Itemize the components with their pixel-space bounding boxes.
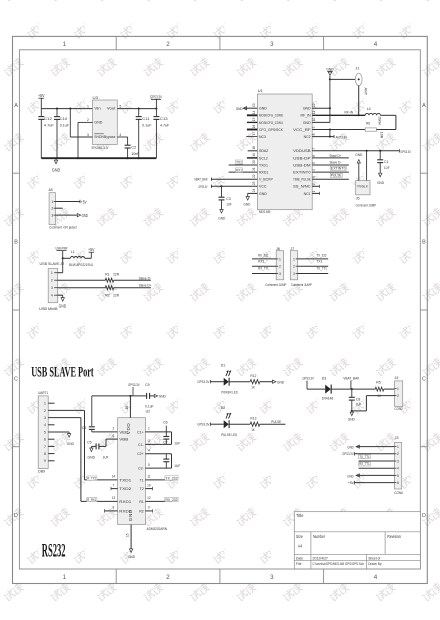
svg-text:+5V: +5V bbox=[348, 480, 354, 485]
svg-text:Slave D+: Slave D+ bbox=[139, 284, 153, 288]
svg-text:Number: Number bbox=[313, 534, 325, 539]
svg-text:C1-: C1- bbox=[138, 443, 144, 447]
svg-text:Bypass: Bypass bbox=[104, 135, 116, 139]
svg-text:2: 2 bbox=[293, 265, 295, 269]
svg-text:GPS3.3V: GPS3.3V bbox=[199, 184, 208, 189]
wire R13 to PULSE net bbox=[260, 423, 286, 425]
svg-text:GND: GND bbox=[347, 473, 354, 478]
svg-text:RX1: RX1 bbox=[258, 260, 264, 264]
svg-text:GPS3.3V: GPS3.3V bbox=[302, 375, 314, 380]
svg-text:C2: C2 bbox=[131, 144, 137, 149]
svg-text:GPS3.3V: GPS3.3V bbox=[197, 422, 209, 427]
svg-text:TX1: TX1 bbox=[236, 160, 242, 164]
svg-text:R6: R6 bbox=[366, 121, 371, 126]
U1 pin3 TIME_PULSE wire bbox=[312, 178, 349, 180]
J5 pin2 to GPS3.3V wire bbox=[366, 151, 368, 181]
svg-text:2: 2 bbox=[279, 265, 281, 269]
svg-text:Size: Size bbox=[296, 534, 303, 539]
svg-text:TXD1: TXD1 bbox=[259, 163, 268, 167]
svg-text:7: 7 bbox=[44, 445, 46, 449]
svg-text:1K: 1K bbox=[251, 427, 255, 432]
svg-text:C6: C6 bbox=[163, 421, 168, 425]
wire D3 to VBAT_BAK junction bbox=[332, 388, 376, 390]
U2 T2 stub bbox=[145, 488, 152, 490]
svg-text:5: 5 bbox=[148, 463, 150, 467]
capacitor C6 between C1+ C1- bbox=[145, 431, 171, 433]
J3 pin1 GND bbox=[357, 446, 395, 448]
svg-text:VBAT_BAK: VBAT_BAK bbox=[343, 375, 359, 380]
svg-text:A: A bbox=[14, 103, 18, 109]
U1 pin1 NC1 stub bbox=[312, 192, 319, 194]
svg-text:10: 10 bbox=[147, 483, 151, 487]
svg-text:2: 2 bbox=[312, 183, 316, 185]
svg-text:NC2: NC2 bbox=[304, 135, 311, 139]
U1 pin2 SS_N stub bbox=[312, 185, 319, 187]
capacitor C3 bbox=[220, 185, 222, 187]
svg-text:15: 15 bbox=[126, 533, 130, 537]
svg-text:PS/Se.m: PS/Se.m bbox=[358, 184, 369, 188]
svg-text:8: 8 bbox=[44, 452, 46, 456]
svg-text:16: 16 bbox=[125, 406, 129, 410]
U1 pin22 V_BCKP wire / net VBAT_BAK bbox=[211, 178, 257, 180]
svg-text:R13: R13 bbox=[250, 416, 257, 421]
wire J8 pin3 to GND bbox=[56, 214, 78, 216]
U2 R2 stub bbox=[145, 510, 152, 512]
GPS module U1 NEO-6M bbox=[257, 94, 312, 210]
svg-text:L1: L1 bbox=[71, 249, 75, 254]
svg-text:Slave D+: Slave D+ bbox=[329, 154, 341, 158]
svg-text:C9: C9 bbox=[145, 382, 150, 387]
svg-text:A4: A4 bbox=[298, 544, 303, 549]
svg-text:R12: R12 bbox=[250, 373, 257, 378]
wire R5 to J4 bbox=[384, 388, 395, 390]
svg-text:GPS3.3V: GPS3.3V bbox=[400, 149, 411, 154]
ground symbol C3 bbox=[221, 203, 223, 209]
svg-text:GND: GND bbox=[347, 444, 354, 449]
svg-text:17: 17 bbox=[252, 132, 256, 136]
svg-text:T1: T1 bbox=[140, 478, 144, 482]
svg-text:2: 2 bbox=[44, 409, 46, 413]
svg-text:5: 5 bbox=[119, 104, 121, 108]
svg-text:0.1uF: 0.1uF bbox=[60, 122, 70, 127]
wire U3 Vout bbox=[117, 108, 156, 110]
svg-text:39nH: 39nH bbox=[377, 117, 381, 126]
svg-text:1: 1 bbox=[279, 257, 281, 261]
wire J2 pin1 to USB-PWR bbox=[58, 272, 63, 274]
svg-text:0.1uF: 0.1uF bbox=[142, 122, 152, 127]
svg-text:5: 5 bbox=[312, 162, 316, 164]
svg-text:VDDUSB: VDDUSB bbox=[293, 149, 311, 153]
svg-text:2: 2 bbox=[397, 452, 399, 456]
resistor R1 bbox=[105, 278, 113, 282]
svg-text:TX_232: TX_232 bbox=[316, 253, 326, 257]
svg-text:Comment +5V jacket: Comment +5V jacket bbox=[49, 226, 77, 230]
ground symbol C5 bbox=[90, 446, 92, 448]
svg-text:R5: R5 bbox=[376, 380, 381, 385]
U2 pin15 to GND bbox=[130, 525, 132, 549]
svg-text:TX_232: TX_232 bbox=[166, 476, 178, 480]
svg-text:11: 11 bbox=[147, 475, 151, 479]
svg-text:6: 6 bbox=[113, 434, 115, 438]
wire J8 pin1 to +5V bbox=[56, 201, 81, 203]
U1 pin20 TXD1 wire bbox=[229, 164, 258, 166]
svg-text:4: 4 bbox=[312, 169, 316, 171]
svg-text:1: 1 bbox=[148, 427, 150, 431]
svg-text:22R: 22R bbox=[113, 292, 119, 297]
svg-text:A: A bbox=[422, 103, 426, 109]
svg-text:1UF: 1UF bbox=[174, 442, 181, 446]
svg-text:GND: GND bbox=[377, 180, 384, 185]
U1 pin23 VCC wire / net GPS3.3V bbox=[211, 185, 257, 187]
svg-text:RS232: RS232 bbox=[42, 541, 66, 561]
svg-text:5: 5 bbox=[44, 430, 46, 434]
capacitor C1 bbox=[379, 151, 381, 160]
svg-text:15: 15 bbox=[252, 117, 256, 121]
wire GPS3.3V down to C4/V+ bbox=[91, 396, 93, 426]
svg-text:USB SLAVE: USB SLAVE bbox=[40, 261, 60, 266]
svg-text:U2: U2 bbox=[146, 408, 151, 413]
svg-text:RX_232: RX_232 bbox=[166, 498, 178, 502]
svg-text:VCC: VCC bbox=[259, 185, 267, 189]
capacitor C7 between C2+ C2- bbox=[145, 453, 171, 455]
svg-text:RXD2: RXD2 bbox=[119, 509, 131, 513]
svg-text:Title: Title bbox=[296, 513, 304, 518]
capacitor C4 bbox=[89, 426, 95, 428]
U1 pin21 RXD1 wire bbox=[229, 171, 258, 173]
svg-text:1: 1 bbox=[293, 257, 295, 261]
svg-text:TXD1: TXD1 bbox=[119, 478, 131, 482]
svg-text:GND: GND bbox=[82, 213, 88, 218]
svg-text:GPS3.3V: GPS3.3V bbox=[197, 379, 209, 384]
U1 pin24 GND bbox=[248, 192, 258, 194]
svg-text:13: 13 bbox=[112, 496, 116, 500]
wire R2 to Slave D+ bbox=[114, 287, 151, 289]
U1 pin17 stub bbox=[246, 136, 257, 138]
svg-text:EXTINT0: EXTINT0 bbox=[293, 171, 311, 175]
J5 pin1 to GND symbol bbox=[358, 163, 360, 180]
svg-text:1: 1 bbox=[51, 200, 53, 204]
U1 pin4 EXTINT0 wire bbox=[312, 171, 349, 173]
svg-text:D1: D1 bbox=[221, 362, 226, 367]
svg-text:4: 4 bbox=[397, 467, 399, 471]
svg-text:C3: C3 bbox=[226, 196, 231, 201]
svg-text:1UF: 1UF bbox=[384, 165, 390, 170]
svg-text:1UF: 1UF bbox=[103, 455, 110, 459]
svg-text:2: 2 bbox=[113, 427, 115, 431]
J3 pin3 TX_TTL bbox=[359, 460, 395, 462]
svg-text:PULSE: PULSE bbox=[271, 420, 281, 424]
J3 pin4 RX_TTL bbox=[359, 467, 395, 469]
power net +5V at L1 bbox=[90, 252, 92, 258]
svg-text:8: 8 bbox=[113, 506, 115, 510]
svg-text:4: 4 bbox=[51, 294, 53, 298]
svg-text:VBAT_BAK: VBAT_BAK bbox=[194, 177, 208, 182]
svg-text:9: 9 bbox=[44, 459, 46, 463]
svg-text:PULSE LED: PULSE LED bbox=[221, 433, 237, 437]
svg-text:C4: C4 bbox=[82, 426, 87, 430]
svg-text:Revision: Revision bbox=[387, 534, 401, 539]
svg-text:9: 9 bbox=[148, 506, 150, 510]
J6 wires RX bbox=[252, 258, 276, 260]
svg-text:4: 4 bbox=[119, 133, 121, 137]
svg-text:C1+: C1+ bbox=[137, 430, 144, 434]
svg-text:22R: 22R bbox=[113, 271, 119, 276]
svg-text:VEE: VEE bbox=[119, 430, 129, 434]
svg-text:6: 6 bbox=[44, 438, 46, 442]
svg-text:4: 4 bbox=[148, 449, 150, 453]
svg-text:D: D bbox=[14, 513, 18, 519]
svg-text:RX_232: RX_232 bbox=[258, 253, 268, 257]
svg-text:VCC_RF: VCC_RF bbox=[293, 128, 311, 132]
wire R1 to Slave D- bbox=[114, 279, 151, 281]
svg-text:24: 24 bbox=[252, 188, 256, 192]
svg-text:VBB: VBB bbox=[119, 438, 129, 442]
svg-text:2: 2 bbox=[397, 394, 399, 398]
svg-text:SHDN: SHDN bbox=[94, 135, 104, 139]
svg-text:1: 1 bbox=[63, 41, 67, 48]
svg-text:1: 1 bbox=[63, 574, 67, 581]
resistor R12 bbox=[250, 380, 260, 384]
svg-text:3: 3 bbox=[293, 272, 295, 276]
svg-text:14: 14 bbox=[112, 475, 116, 479]
svg-text:4.7uF: 4.7uF bbox=[160, 122, 170, 127]
wire GND drop to pin10 bbox=[329, 76, 331, 122]
wire J1 to RF_IN bbox=[358, 86, 360, 116]
ground symbol C8 bbox=[351, 410, 353, 412]
svg-text:C:\work\a\GPS\NEO-6M GPS\GPS.S: C:\work\a\GPS\NEO-6M GPS\GPS.Sch bbox=[313, 562, 365, 566]
svg-text:ADM3202ARN: ADM3202ARN bbox=[147, 527, 168, 531]
svg-text:C7: C7 bbox=[163, 440, 168, 444]
svg-text:CON6: CON6 bbox=[394, 491, 403, 495]
svg-text:1: 1 bbox=[51, 271, 53, 275]
svg-text:14: 14 bbox=[252, 110, 256, 114]
svg-text:1: 1 bbox=[312, 190, 316, 192]
svg-text:R1: R1 bbox=[139, 500, 144, 504]
svg-text:8: 8 bbox=[312, 133, 316, 135]
svg-text:23: 23 bbox=[252, 181, 256, 185]
wire J2 pin3 to R2 bbox=[58, 287, 106, 289]
svg-text:RXD1: RXD1 bbox=[119, 500, 131, 504]
svg-text:U3: U3 bbox=[93, 95, 99, 100]
svg-text:3: 3 bbox=[44, 416, 46, 420]
jumper J5 bbox=[356, 181, 370, 195]
svg-text:D: D bbox=[422, 513, 426, 519]
svg-text:2: 2 bbox=[166, 574, 170, 581]
svg-text:1UF: 1UF bbox=[174, 464, 181, 468]
svg-text:4: 4 bbox=[44, 423, 46, 427]
svg-text:Vout: Vout bbox=[107, 107, 117, 111]
resistor R5 bbox=[375, 387, 384, 391]
svg-text:7: 7 bbox=[312, 148, 316, 150]
capacitor C12 bbox=[40, 109, 42, 117]
U1 pin5 USB-DM wire bbox=[312, 164, 349, 166]
svg-text:POWER LED: POWER LED bbox=[221, 390, 238, 394]
svg-text:12: 12 bbox=[312, 103, 316, 107]
U2 TXD2 pin7 stub bbox=[111, 488, 118, 490]
capacitor C2 bypass bbox=[117, 136, 127, 138]
svg-text:RX_TTL: RX_TTL bbox=[258, 266, 269, 270]
svg-text:C: C bbox=[422, 376, 426, 382]
wire R12 to GND bbox=[260, 381, 273, 383]
svg-text:Vin: Vin bbox=[94, 107, 101, 111]
svg-text:Comment JUMP: Comment JUMP bbox=[265, 283, 286, 287]
svg-text:3: 3 bbox=[270, 41, 274, 48]
svg-text:2: 2 bbox=[166, 41, 170, 48]
svg-text:GND: GND bbox=[218, 216, 225, 221]
svg-text:3: 3 bbox=[397, 459, 399, 463]
svg-text:V_BCKP: V_BCKP bbox=[259, 178, 273, 182]
svg-text:3: 3 bbox=[87, 133, 89, 137]
svg-text:RX1: RX1 bbox=[236, 168, 242, 172]
svg-text:GND: GND bbox=[52, 168, 61, 173]
svg-text:UART1: UART1 bbox=[38, 390, 49, 395]
svg-text:C12: C12 bbox=[44, 116, 53, 121]
ground symbol GND rail bbox=[55, 158, 57, 160]
svg-text:ANT3.3V: ANT3.3V bbox=[336, 135, 348, 139]
resistor R6 box style bbox=[312, 129, 365, 131]
wire UART1 pin2 to U2 TXD1 bbox=[48, 409, 84, 411]
svg-text:GND: GND bbox=[128, 554, 135, 559]
wire J4 pin2 return to GND bbox=[366, 395, 394, 397]
svg-text:+5V: +5V bbox=[81, 199, 87, 204]
svg-text:USB-DP: USB-DP bbox=[293, 156, 311, 160]
svg-text:USB-PWR: USB-PWR bbox=[56, 246, 68, 251]
wire U3 GND pin to ground rail bbox=[78, 121, 93, 123]
svg-text:SS_N/NC: SS_N/NC bbox=[293, 185, 311, 189]
svg-text:1K: 1K bbox=[251, 385, 255, 390]
U1 pin15 stub bbox=[247, 121, 258, 123]
svg-text:TXD2: TXD2 bbox=[119, 487, 131, 491]
svg-text:R2: R2 bbox=[105, 292, 110, 297]
svg-text:GND: GND bbox=[303, 121, 311, 125]
U1 pin16 stub bbox=[247, 129, 258, 131]
svg-text:TX_TTL: TX_TTL bbox=[316, 266, 327, 270]
wire L4 to bias junction bbox=[380, 114, 396, 116]
svg-text:18: 18 bbox=[252, 146, 256, 150]
svg-text:1: 1 bbox=[44, 402, 46, 406]
J3 pin5 GND bbox=[357, 474, 395, 476]
svg-text:CFG_GPS/SCK: CFG_GPS/SCK bbox=[259, 128, 284, 132]
svg-text:1UF: 1UF bbox=[356, 402, 362, 407]
svg-text:RF-IN: RF-IN bbox=[345, 110, 354, 114]
capacitor C13 bbox=[155, 108, 157, 110]
svg-text:4: 4 bbox=[374, 574, 378, 581]
U1 pin8 NC2 tie to VCC_RF / net ANT3.3V bbox=[329, 130, 331, 137]
ground rail bbox=[41, 157, 156, 159]
wire +5V rail to regulator bbox=[41, 108, 92, 110]
svg-text:C: C bbox=[14, 376, 18, 382]
svg-text:USB SLAVE Port: USB SLAVE Port bbox=[31, 364, 94, 380]
svg-text:RF_IN: RF_IN bbox=[300, 114, 311, 118]
capacitor C8 bbox=[351, 389, 353, 397]
svg-text:PULSE: PULSE bbox=[331, 174, 342, 178]
svg-text:3: 3 bbox=[312, 176, 316, 178]
svg-text:16: 16 bbox=[252, 125, 256, 129]
svg-text:2: 2 bbox=[51, 207, 53, 211]
svg-text:9: 9 bbox=[312, 126, 316, 128]
svg-text:GND: GND bbox=[259, 192, 267, 196]
wire C4 to U2 VEE pin2 bbox=[92, 431, 118, 433]
svg-text:USB-DM: USB-DM bbox=[293, 163, 311, 167]
svg-text:Sheet of: Sheet of bbox=[368, 555, 381, 560]
svg-text:+5V: +5V bbox=[88, 247, 95, 252]
svg-text:1: 1 bbox=[87, 104, 89, 108]
svg-text:4.7uF: 4.7uF bbox=[44, 122, 54, 127]
svg-text:1N4148: 1N4148 bbox=[322, 396, 334, 400]
svg-text:DB9: DB9 bbox=[38, 469, 45, 473]
U1 pin14 stub bbox=[247, 114, 258, 116]
resistor R2 bbox=[105, 286, 113, 290]
svg-text:C11: C11 bbox=[142, 116, 150, 121]
ground symbol C1 bbox=[379, 172, 381, 174]
transceiver U2 ADM3202 bbox=[118, 418, 146, 525]
U2 T1 wire to TX_232 bbox=[145, 479, 170, 481]
svg-text:6: 6 bbox=[397, 481, 399, 485]
svg-text:7: 7 bbox=[113, 483, 115, 487]
svg-text:D2: D2 bbox=[221, 405, 226, 410]
U2 VBB pin6 wire to C5 bbox=[106, 438, 118, 440]
svg-text:GPS3.3V: GPS3.3V bbox=[342, 451, 354, 456]
svg-text:GND: GND bbox=[259, 107, 267, 111]
svg-text:USB MiniB: USB MiniB bbox=[39, 307, 58, 311]
title block bbox=[294, 512, 420, 569]
svg-text:5: 5 bbox=[397, 474, 399, 478]
svg-text:GND: GND bbox=[355, 152, 362, 157]
svg-text:GND: GND bbox=[303, 107, 311, 111]
svg-text:12: 12 bbox=[147, 496, 151, 500]
svg-text:3: 3 bbox=[148, 439, 150, 443]
svg-text:GPS3.3V: GPS3.3V bbox=[150, 94, 162, 99]
svg-text:GND: GND bbox=[326, 66, 334, 71]
svg-text:2012/4/27: 2012/4/27 bbox=[313, 555, 329, 560]
svg-text:CON2: CON2 bbox=[394, 407, 403, 411]
svg-text:1: 1 bbox=[397, 387, 399, 391]
svg-text:Date: Date bbox=[296, 555, 304, 560]
svg-text:BLM18PG221SN1: BLM18PG221SN1 bbox=[69, 263, 93, 267]
svg-text:2: 2 bbox=[87, 118, 89, 122]
U1 pin13 GND power port bbox=[244, 107, 258, 109]
capacitor C5 bbox=[99, 445, 106, 447]
svg-text:13: 13 bbox=[252, 103, 256, 107]
regulator U3 bbox=[93, 100, 118, 144]
svg-text:2: 2 bbox=[51, 279, 53, 283]
J7 wires TX bbox=[298, 258, 329, 260]
wire UART1 pin5 to GND bbox=[48, 431, 69, 433]
U1 pin6 USB-DP wire bbox=[312, 157, 349, 159]
svg-text:T2: T2 bbox=[140, 487, 144, 491]
svg-text:3: 3 bbox=[270, 574, 274, 581]
svg-text:6: 6 bbox=[312, 155, 316, 157]
svg-text:1: 1 bbox=[397, 445, 399, 449]
J3 pin2 GPS3.3V bbox=[355, 453, 395, 455]
frame zone ticks bbox=[115, 36, 117, 49]
svg-text:C1: C1 bbox=[384, 159, 389, 164]
U2 R1 wire to RX_232 bbox=[145, 500, 170, 502]
svg-text:21: 21 bbox=[252, 167, 256, 171]
svg-text:GND: GND bbox=[67, 441, 74, 446]
U1 pin18 SDA2 stub bbox=[248, 150, 258, 152]
svg-text:GND: GND bbox=[243, 201, 250, 206]
svg-text:3: 3 bbox=[279, 272, 281, 276]
svg-text:B: B bbox=[14, 240, 18, 246]
svg-text:TX1: TX1 bbox=[316, 260, 322, 264]
U1 pin7 VDDUSB wire to GPS3.3V bbox=[312, 150, 399, 152]
svg-text:TX_TTL: TX_TTL bbox=[359, 455, 370, 459]
svg-text:10R: 10R bbox=[379, 132, 383, 139]
U1 pin12 GND wire bbox=[312, 107, 330, 109]
svg-text:B: B bbox=[422, 240, 426, 246]
svg-text:NC1: NC1 bbox=[304, 192, 311, 196]
